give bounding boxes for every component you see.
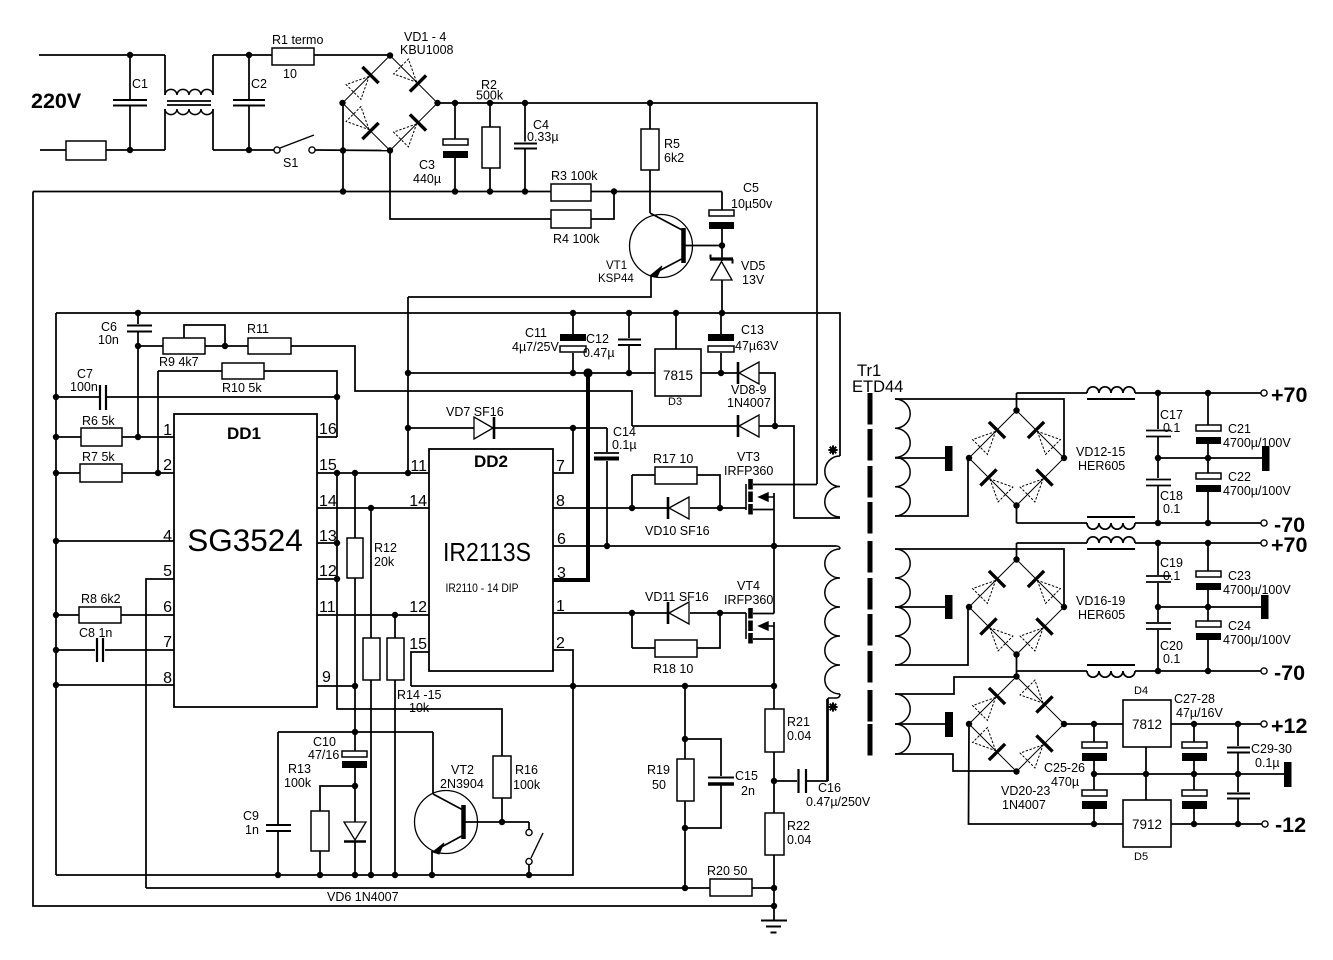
resistor R11 [225, 345, 248, 347]
wire left bus x56 [55, 313, 57, 875]
wire AC line bottom left [40, 149, 66, 151]
resistor R2 [489, 103, 491, 127]
wire R19 top [684, 686, 686, 739]
svg-text:0.04: 0.04 [787, 833, 811, 847]
capacitor C28 [1193, 774, 1195, 790]
svg-text:1n: 1n [245, 823, 259, 837]
wire -12 rail b [1171, 823, 1264, 825]
svg-text:7815: 7815 [663, 368, 693, 383]
svg-text:IRFP360: IRFP360 [724, 593, 773, 607]
node bridge left / S1 wire [340, 147, 346, 153]
svg-text:-12: -12 [1275, 813, 1306, 837]
transformer core [868, 393, 873, 425]
svg-text:KBU1008: KBU1008 [400, 43, 454, 57]
diode VD11 [667, 602, 670, 624]
diode VD9 [632, 425, 738, 427]
wire VT2 base [464, 821, 530, 823]
node pin4 left [53, 538, 59, 544]
svg-text:DD2: DD2 [474, 452, 508, 471]
svg-text:C29-30: C29-30 [1251, 742, 1292, 756]
svg-text:VD6 1N4007: VD6 1N4007 [327, 890, 399, 904]
svg-text:100n: 100n [70, 380, 98, 394]
terminal -70 a [1261, 520, 1267, 526]
diode VD8 [737, 362, 740, 384]
node C3 top [452, 100, 458, 106]
node C10 top [352, 729, 358, 735]
capacitor C16 [774, 780, 797, 782]
capacitor C4 [524, 103, 526, 142]
svg-text:47µ/16V: 47µ/16V [1176, 706, 1223, 720]
svg-text:VT3: VT3 [737, 450, 760, 464]
svg-text:VD5: VD5 [741, 259, 765, 273]
svg-text:IRFP360: IRFP360 [724, 464, 773, 478]
wire outer loop [33, 192, 774, 907]
node C23 top [1205, 540, 1211, 546]
svg-text:VT4: VT4 [737, 579, 760, 593]
bridge VD1-4 diode BL [362, 123, 378, 139]
capacitor C6 [137, 313, 139, 324]
svg-text:50: 50 [652, 778, 666, 792]
node R3/R4 junction [611, 188, 617, 194]
wire 7815 top pin [675, 313, 677, 349]
svg-text:C5: C5 [743, 181, 759, 195]
svg-text:C23: C23 [1228, 569, 1251, 583]
diode VD6 [354, 786, 356, 822]
svg-text:11: 11 [319, 599, 336, 616]
wire Vcc rail [56, 313, 840, 456]
resistor R9 [138, 345, 163, 347]
diode VD7 [408, 427, 474, 429]
node C30 bottom [1235, 821, 1241, 827]
terminal bar secondary 2 [945, 595, 953, 619]
node y686 R19 [682, 683, 688, 689]
node pin9/R12 chain [352, 683, 358, 689]
terminal +12 [1261, 721, 1267, 727]
svg-text:14: 14 [409, 493, 427, 510]
svg-text:0.1: 0.1 [1163, 569, 1180, 583]
svg-text:10k: 10k [409, 701, 430, 715]
svg-text:R5: R5 [664, 137, 680, 151]
svg-text:R22: R22 [787, 819, 810, 833]
wire VT1 emitter drop [407, 297, 409, 473]
regulator D4 7812 box [1123, 700, 1171, 747]
bridge VD12-15 diode TR [1028, 422, 1044, 438]
capacitor C26 [1093, 774, 1095, 790]
node mid C27 [1191, 771, 1197, 777]
node R7 left [53, 470, 59, 476]
node C29 top [1235, 721, 1241, 727]
capacitor C12 [628, 313, 630, 338]
resistor R17 [632, 474, 655, 476]
node VD7 row left [405, 425, 411, 431]
node R2 top [487, 100, 493, 106]
wire pin12 stub [317, 578, 337, 580]
svg-text:C8 1n: C8 1n [79, 626, 112, 640]
node y875 R13 [317, 872, 323, 878]
svg-text:VD16-19: VD16-19 [1076, 594, 1125, 608]
node R19/C15 top [682, 736, 688, 742]
wire mid rail 3 [1094, 773, 1284, 775]
resistor R7 [56, 472, 80, 474]
capacitor C17 [1157, 393, 1159, 429]
node pin12 [334, 576, 340, 582]
node C24 bottom [1205, 668, 1211, 674]
wire pin8 [56, 684, 174, 686]
svg-text:-70: -70 [1274, 661, 1305, 685]
wire rail y888 [146, 887, 685, 889]
node C19 top [1155, 540, 1161, 546]
node y875 VD6 [352, 872, 358, 878]
node 7815 top [673, 310, 679, 316]
node C7 right / pin16 chain [334, 394, 340, 400]
svg-text:R16: R16 [515, 763, 538, 777]
wire R4 left from bridge [390, 151, 551, 220]
terminal -12 [1262, 821, 1268, 827]
wire pin1 DD2 [553, 612, 668, 614]
primary winding lower [836, 546, 840, 549]
node pin7 chain [570, 425, 576, 431]
wire pin8 DD2 [553, 507, 668, 509]
wire R11 to VD9 [291, 346, 632, 426]
wire to ground [773, 888, 775, 920]
wire -70 rail 2 [1016, 655, 1018, 678]
wire -12 rail [969, 724, 1124, 824]
node pin15/col337 [334, 470, 340, 476]
node mid C25 [1091, 771, 1097, 777]
node y888 right [771, 885, 777, 891]
phase dot primary upper [828, 449, 837, 451]
wire pin13 stub [317, 542, 337, 544]
node C22 bottom [1205, 520, 1211, 526]
svg-text:0.04: 0.04 [787, 729, 811, 743]
regulator D3 7815 box [655, 349, 701, 396]
wire VD8 to VD9 [759, 373, 775, 426]
terminal bar mid 3 [1284, 762, 1292, 787]
svg-text:C7: C7 [77, 367, 93, 381]
capacitor C10 [354, 732, 356, 751]
node R7 right / R10 [155, 470, 161, 476]
svg-text:VD20-23: VD20-23 [1001, 784, 1050, 798]
svg-text:+70: +70 [1271, 533, 1308, 557]
svg-text:+70: +70 [1271, 383, 1308, 407]
wire pin4 [56, 540, 174, 542]
node C16 row [771, 778, 777, 784]
node R6 left [53, 434, 59, 440]
capacitor C25 [1093, 724, 1095, 742]
svg-text:C15: C15 [735, 769, 758, 783]
capacitor C13 [720, 313, 722, 334]
node R17 right [717, 505, 723, 511]
svg-text:C19: C19 [1160, 556, 1183, 570]
svg-text:HER605: HER605 [1078, 608, 1125, 622]
svg-text:4700µ/100V: 4700µ/100V [1223, 583, 1291, 597]
capacitor C7 [56, 396, 99, 398]
capacitor C20 [1157, 607, 1159, 622]
svg-text:100k: 100k [284, 776, 312, 790]
op-amp DD1 SG3524 box [174, 414, 317, 707]
bridge VD12-15 diamond [969, 411, 1064, 506]
svg-text:440µ: 440µ [413, 172, 441, 186]
svg-text:7912: 7912 [1132, 817, 1162, 832]
svg-text:VD1 - 4: VD1 - 4 [404, 30, 446, 44]
bridge VD16-19 diode BR [1036, 618, 1052, 634]
svg-text:VD7 SF16: VD7 SF16 [446, 405, 504, 419]
diode VD10 [667, 497, 670, 519]
wire R9 bypass [184, 325, 225, 346]
node pin14/R14 [368, 505, 374, 511]
node mid C17 [1155, 455, 1161, 461]
node C13 bottom [718, 370, 724, 376]
node pin11/R15 [392, 612, 398, 618]
switch S2 [528, 822, 530, 830]
wire Vref rail y373 [408, 372, 655, 374]
node VD5 bottom [719, 310, 725, 316]
svg-text:47µ63V: 47µ63V [735, 339, 779, 353]
svg-text:10µ50v: 10µ50v [731, 197, 773, 211]
node C14 bottom [604, 543, 610, 549]
svg-text:0.33µ: 0.33µ [527, 130, 559, 144]
secondary winding 2 [895, 549, 910, 665]
svg-text:C2: C2 [251, 77, 267, 91]
node y875 S2 [526, 872, 532, 878]
transistor VT2 2N3904 [415, 791, 478, 854]
secondary 3 top wire [895, 677, 1017, 694]
primary winding upper [825, 456, 840, 517]
svg-text:10n: 10n [98, 333, 119, 347]
node C6/R9 [135, 343, 141, 349]
wire +12 rail [1064, 723, 1123, 725]
node VD8/VD9 [772, 423, 778, 429]
node C27 top [1191, 721, 1197, 727]
svg-text:0.47µ/250V: 0.47µ/250V [806, 795, 871, 809]
terminal bar mid 1 [1262, 446, 1270, 471]
svg-text:C20: C20 [1160, 639, 1183, 653]
svg-text:R21: R21 [787, 715, 810, 729]
node y906 [771, 903, 777, 909]
node y875 R15 [392, 872, 398, 878]
node C7 left [53, 394, 59, 400]
svg-text:15: 15 [409, 636, 427, 653]
resistor R14 [370, 508, 372, 638]
node R9/R11 [222, 343, 228, 349]
svg-text:R9 4k7: R9 4k7 [159, 355, 199, 369]
capacitor C8 [56, 649, 95, 651]
transistor VT1 [630, 215, 693, 278]
node C20 bottom [1155, 668, 1161, 674]
svg-text:VT1: VT1 [606, 260, 627, 272]
capacitor C22 [1207, 458, 1209, 473]
bridge VD12-15 diode TL [989, 422, 1005, 438]
svg-text:4700µ/100V: 4700µ/100V [1223, 633, 1291, 647]
wire pin7 [553, 428, 573, 473]
node C25 top [1091, 721, 1097, 727]
capacitor C5 [721, 192, 723, 211]
svg-text:C27-28: C27-28 [1174, 692, 1215, 706]
node y875 R14 [368, 872, 374, 878]
capacitor C15 [685, 739, 721, 776]
terminal bar secondary 3 [945, 712, 953, 737]
choke T1 winding bottom [164, 109, 166, 150]
resistor R12 [354, 473, 356, 538]
bridge VD16-19 diode BL [980, 618, 996, 634]
bridge VD20-23 diode TR [1036, 696, 1052, 712]
capacitor C27 [1193, 724, 1195, 742]
svg-text:13V: 13V [742, 273, 765, 287]
svg-text:220V: 220V [31, 89, 82, 113]
svg-text:KSP44: KSP44 [598, 273, 634, 285]
switch S1 [274, 147, 280, 153]
svg-text:C21: C21 [1228, 422, 1251, 436]
wire pin2 DD2 [553, 650, 573, 686]
svg-text:2: 2 [163, 457, 172, 474]
wire S1 to bridge [315, 149, 390, 152]
wire pin9 stub [317, 685, 355, 687]
secondary 3 center tap [895, 723, 945, 725]
svg-text:C1: C1 [132, 77, 148, 91]
wire +12 rail b [1171, 723, 1261, 725]
node mid 7812 [1143, 771, 1149, 777]
secondary 3 bottom wire [895, 754, 1017, 771]
svg-text:IR2113S: IR2113S [443, 537, 531, 567]
node R5 top [647, 100, 653, 106]
capacitor C9 [277, 732, 279, 824]
svg-text:C25-26: C25-26 [1044, 761, 1085, 775]
resistor R21 [773, 686, 775, 709]
svg-text:R20 50: R20 50 [707, 864, 747, 878]
svg-text:8: 8 [163, 670, 172, 687]
node C2 top [246, 52, 252, 58]
svg-text:0.1µ: 0.1µ [1255, 756, 1280, 770]
svg-text:ETD44: ETD44 [852, 378, 903, 396]
wire R3 right [591, 191, 722, 193]
bridge VD20-23 diode TL [989, 688, 1005, 704]
capacitor C29 [1237, 724, 1239, 746]
node mid C21 [1205, 455, 1211, 461]
svg-text:R1 termo: R1 termo [272, 33, 323, 47]
node base/R16 [499, 819, 505, 825]
zener VD5 [721, 246, 723, 262]
capacitor C19 [1157, 543, 1159, 575]
wire R1 to bridge [314, 54, 390, 56]
node C4 bottom [522, 188, 528, 194]
wire VT1 emitter [408, 275, 651, 297]
svg-text:VT2: VT2 [451, 763, 474, 777]
svg-text:R17 10: R17 10 [653, 452, 693, 466]
wire pin6 rail [553, 545, 836, 547]
svg-text:16: 16 [319, 421, 337, 438]
svg-text:C13: C13 [741, 323, 764, 337]
ground [761, 920, 787, 922]
svg-text:6k2: 6k2 [664, 151, 684, 165]
svg-text:6: 6 [163, 599, 172, 616]
svg-text:R3 100k: R3 100k [551, 169, 598, 183]
capacitor C2 [248, 55, 250, 100]
wire -70 rail 1b [1135, 522, 1261, 524]
wire +310V rail top [438, 103, 818, 484]
node pin15/VT1 emitter chain [405, 470, 411, 476]
wire R19 bottom [684, 828, 686, 888]
wire +70 rail 1b [1135, 392, 1261, 394]
node C8 left [53, 647, 59, 653]
svg-text:VD12-15: VD12-15 [1076, 445, 1125, 459]
terminal +70 b [1261, 540, 1267, 546]
node C21 top [1205, 390, 1211, 396]
wire AC line top [39, 54, 165, 56]
svg-text:47/16: 47/16 [308, 748, 339, 762]
wire R10 left to pin2 [157, 371, 159, 473]
node pin3 top bold [583, 368, 592, 377]
bridge VD16-19 diode TL [989, 571, 1005, 587]
svg-text:11: 11 [410, 458, 427, 475]
capacitor C23 [1207, 543, 1209, 571]
wire pin5 [146, 579, 174, 888]
svg-text:R7 5k: R7 5k [82, 450, 115, 464]
svg-text:C11: C11 [525, 326, 547, 340]
secondary winding 1 [895, 399, 910, 516]
bridge VD1-4 diamond [343, 56, 438, 151]
secondary 2 bottom wire [895, 607, 968, 665]
wire pin15 row [317, 472, 429, 474]
resistor R6 [56, 436, 81, 438]
regulator D5 7912 box [1123, 800, 1171, 847]
wire pin3 bold [553, 578, 590, 582]
svg-text:R18 10: R18 10 [653, 662, 693, 676]
node bridge left to rail [340, 188, 346, 194]
svg-text:R14 -15: R14 -15 [397, 688, 442, 702]
wire 7815 out [701, 372, 738, 374]
wire mid rail 1 [1158, 457, 1262, 459]
inductor L4 [1087, 671, 1135, 677]
node C26 bottom [1091, 821, 1097, 827]
wire +70 rail 2b [1135, 542, 1261, 544]
capacitor C11 [572, 313, 574, 334]
svg-text:1N4007: 1N4007 [1002, 798, 1046, 812]
svg-text:10: 10 [283, 67, 297, 81]
svg-text:R13: R13 [288, 762, 311, 776]
node rail373 left [405, 370, 411, 376]
node C28 bottom [1191, 821, 1197, 827]
svg-text:0.1µ: 0.1µ [612, 438, 637, 452]
node C6 top [135, 310, 141, 316]
svg-text:R8 6k2: R8 6k2 [81, 592, 121, 606]
node mid C19 [1155, 604, 1161, 610]
choke T1 winding top [164, 55, 166, 95]
secondary 2 top wire [895, 549, 1064, 607]
node source rail [771, 543, 777, 549]
svg-text:4700µ/100V: 4700µ/100V [1223, 484, 1291, 498]
svg-text:7: 7 [163, 634, 172, 651]
node C2 bottom [246, 147, 252, 153]
svg-text:1N4007: 1N4007 [727, 396, 771, 410]
resistor R13 [320, 786, 355, 811]
svg-text:IR2110 - 14 DIP: IR2110 - 14 DIP [446, 581, 519, 595]
resistor R22 [773, 781, 775, 813]
capacitor C24 [1207, 607, 1209, 621]
capacitor C18 [1157, 458, 1159, 478]
node mid C23 [1205, 604, 1211, 610]
svg-text:1: 1 [163, 422, 172, 439]
resistor R4 [551, 210, 591, 228]
terminal bar mid 2 [1261, 595, 1269, 619]
node y686 VT4 [771, 683, 777, 689]
svg-text:D5: D5 [1134, 851, 1148, 863]
wire pin11 row [317, 614, 429, 616]
fuse FU1 [66, 141, 106, 160]
wire VT1 base [684, 245, 723, 247]
node C10 bottom [352, 783, 358, 789]
resistor R18 [631, 613, 633, 648]
node y686 pin2 chain [570, 683, 576, 689]
